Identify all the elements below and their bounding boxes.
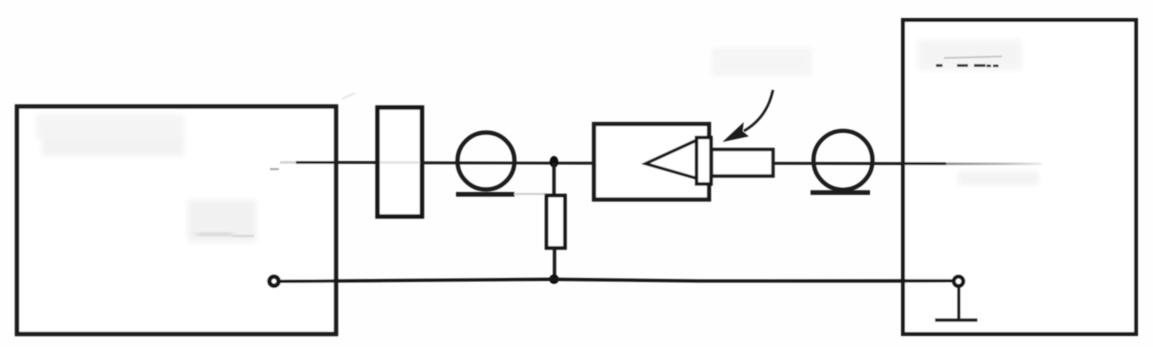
- ground bar: [935, 318, 978, 321]
- faint diagonal mark right of left box top: [342, 93, 355, 99]
- faint erased label in right box (top): [918, 40, 1022, 70]
- pointer arrowhead: [725, 124, 747, 141]
- junction dot on mid wire: [550, 156, 559, 168]
- fiber loop circle 1: [458, 133, 515, 190]
- faint wire inside polarizer block: [380, 161, 420, 164]
- mid wire: faint lead-in inside left box: [280, 161, 297, 164]
- connector body rect: [712, 150, 774, 177]
- ferrule rect: [697, 138, 712, 185]
- faint erased label in left box (top): [36, 114, 184, 156]
- dark dash remnants in right box: [936, 64, 943, 67]
- gray smear line above dashes: [944, 57, 1002, 59]
- right box (receiver unit): [903, 20, 1136, 334]
- cone / triangle inside isolator: [646, 140, 698, 179]
- faint erased label in left box (middle): [188, 200, 256, 242]
- mid wire: polarizer to isolator box: [422, 161, 593, 164]
- fading wire tail inside right box: [946, 163, 1042, 166]
- mid wire: connector to right box: [773, 162, 946, 165]
- bottom rail wire: [280, 279, 953, 281]
- polarizer block: [378, 108, 423, 217]
- resistor R: [547, 196, 566, 249]
- pointer arrow (curved): [744, 90, 773, 131]
- left terminal (open circle): [269, 277, 278, 286]
- wire junction to resistor: [552, 163, 555, 196]
- wire resistor to bottom rail: [553, 248, 556, 280]
- bar under circle 1: [456, 192, 515, 197]
- junction dot on bottom rail: [549, 274, 559, 284]
- faint erased label above arrow: [712, 48, 812, 76]
- right terminal (open circle): [954, 277, 964, 287]
- isolator box: [594, 124, 709, 200]
- fiber loop circle 2: [814, 131, 873, 190]
- tiny faint dash near mid-wire start: [270, 168, 279, 170]
- ground stem: [957, 287, 960, 320]
- left box (source unit): [17, 107, 336, 335]
- faint erased label under wire tail: [958, 171, 1038, 185]
- faint gray extension of bar toward resistor: [514, 193, 547, 195]
- mid wire: left box to polarizer block: [296, 161, 378, 164]
- bar under circle 2: [811, 190, 871, 195]
